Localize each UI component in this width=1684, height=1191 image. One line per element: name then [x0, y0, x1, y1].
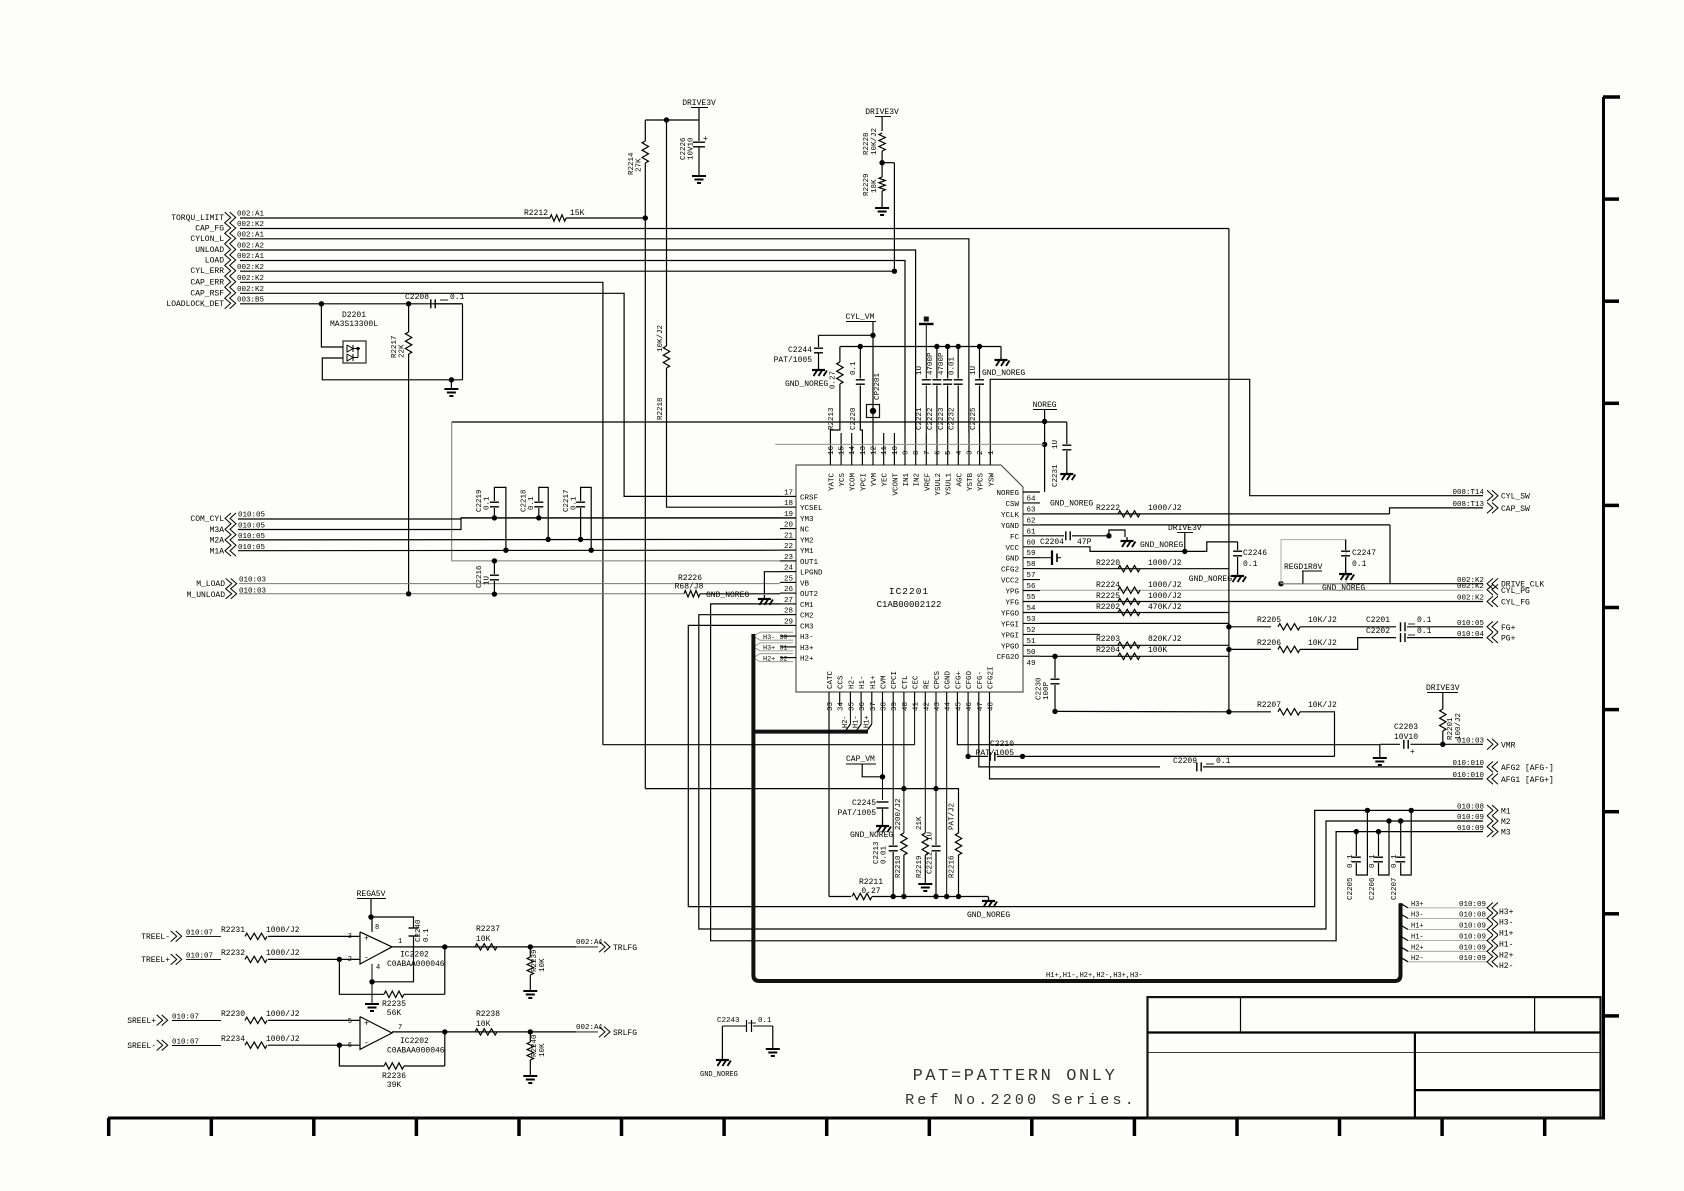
svg-text:0.1: 0.1 — [571, 496, 579, 510]
resistor R2206 10K/J2 to PG+ — [1229, 648, 1271, 650]
svg-text:R2206: R2206 — [1257, 639, 1281, 648]
svg-text:M1A: M1A — [210, 548, 225, 557]
svg-text:49: 49 — [1027, 660, 1036, 668]
svg-text:GND_NOREG: GND_NOREG — [1050, 500, 1093, 509]
svg-text:10K: 10K — [539, 1043, 547, 1057]
svg-text:C2212: C2212 — [927, 851, 935, 874]
wire C2208 right side — [436, 303, 463, 305]
output H2- — [1401, 957, 1409, 962]
wire NOREG horizontal long — [452, 421, 1067, 423]
svg-text:54: 54 — [1027, 605, 1037, 613]
capacitor C2222 4700P — [934, 344, 939, 349]
svg-text:R2231: R2231 — [221, 926, 245, 935]
svg-text:1000/J2: 1000/J2 — [1148, 504, 1182, 513]
resistor R2205 10K/J2 to FG+ — [1229, 626, 1271, 628]
svg-text:61: 61 — [1027, 528, 1037, 536]
wire pin33 CATC down to rail — [828, 706, 830, 897]
svg-text:24: 24 — [784, 565, 794, 573]
svg-text:40: 40 — [902, 701, 910, 711]
svg-text:CP2201: CP2201 — [874, 372, 882, 400]
svg-text:R2229: R2229 — [863, 173, 871, 196]
svg-text:YVM: YVM — [871, 473, 879, 487]
wire M2A row to YM2 pin21 — [238, 538, 780, 541]
wire YFG pin54 to CYL_FG — [1040, 601, 1483, 603]
svg-text:CGND: CGND — [945, 670, 953, 689]
resistor R2236 39K — [384, 1063, 404, 1069]
output H2+ — [1401, 947, 1409, 952]
svg-text:C2210: C2210 — [990, 740, 1014, 749]
op-amp IC2201 body — [796, 465, 1023, 692]
wire YFGI pin52 row — [1040, 622, 1229, 624]
frame bottom zone ticks — [107, 1118, 111, 1136]
wire GND_NOREG rail above IC — [840, 346, 1001, 348]
svg-text:VCC2: VCC2 — [1001, 578, 1019, 586]
svg-text:10K: 10K — [476, 935, 491, 944]
svg-text:21K: 21K — [916, 816, 924, 830]
svg-text:60: 60 — [1027, 539, 1037, 547]
svg-text:H3-: H3- — [1499, 918, 1513, 927]
svg-text:YM2: YM2 — [800, 537, 814, 545]
svg-text:AFG2 [AFG-]: AFG2 [AFG-] — [1501, 764, 1554, 773]
svg-text:C2204: C2204 — [1040, 538, 1064, 547]
wire FC pin59 elbow — [1040, 547, 1185, 552]
svg-text:13: 13 — [860, 445, 868, 455]
svg-text:1U: 1U — [927, 832, 935, 841]
wire DRIVE3V rail — [645, 119, 699, 121]
svg-text:H2-: H2- — [848, 675, 856, 689]
svg-text:H1-: H1- — [1499, 941, 1513, 950]
svg-text:FC: FC — [1010, 534, 1020, 542]
title block right thin line — [1415, 1052, 1601, 1054]
svg-text:27K: 27K — [636, 158, 644, 172]
svg-text:1U: 1U — [970, 366, 978, 375]
svg-text:R2220: R2220 — [1096, 559, 1120, 568]
svg-text:51: 51 — [1027, 638, 1037, 646]
svg-text:1000/J2: 1000/J2 — [1148, 592, 1182, 601]
svg-text:100K: 100K — [1148, 646, 1167, 655]
svg-text:0.1: 0.1 — [1347, 854, 1355, 868]
ground below R2229 — [875, 207, 889, 209]
title block outer — [1148, 997, 1601, 1118]
svg-text:YPGI: YPGI — [1001, 632, 1019, 640]
junction DRIVE3V/R2218 — [664, 117, 669, 122]
ground C2203 — [1379, 744, 1381, 757]
svg-text:NOREG: NOREG — [1033, 401, 1057, 410]
op-amp1 output/feedback — [392, 946, 530, 948]
svg-text:YSTB: YSTB — [967, 473, 975, 492]
svg-text:42: 42 — [923, 702, 931, 711]
svg-text:R2213: R2213 — [828, 407, 836, 430]
pin58 GND chassis symbol — [1040, 557, 1052, 559]
svg-text:6: 6 — [935, 450, 943, 455]
svg-text:0.1: 0.1 — [1417, 616, 1432, 625]
svg-text:CAP_ERR: CAP_ERR — [190, 278, 224, 287]
svg-text:C2203: C2203 — [1394, 723, 1418, 732]
svg-text:41: 41 — [913, 701, 921, 711]
svg-text:39: 39 — [891, 702, 899, 711]
diode D2201 body — [343, 341, 366, 363]
svg-text:010:09: 010:09 — [1457, 814, 1484, 822]
svg-text:Ref No.2200 Series.: Ref No.2200 Series. — [905, 1092, 1137, 1109]
svg-text:R2204: R2204 — [1096, 646, 1120, 655]
svg-text:H2+: H2+ — [1499, 951, 1514, 960]
svg-text:0.1: 0.1 — [1369, 854, 1377, 868]
svg-text:50: 50 — [1027, 649, 1037, 657]
svg-text:1000/J2: 1000/J2 — [266, 949, 300, 958]
svg-text:56K: 56K — [387, 1009, 402, 1018]
svg-text:YATC: YATC — [828, 473, 836, 492]
capacitor C2225 1U — [977, 344, 982, 349]
wire CFG+ pin45 to C2203/VMR line — [957, 706, 1379, 745]
svg-text:C2201: C2201 — [1366, 616, 1390, 625]
wire LPGND pin24 hook to ground — [764, 572, 780, 594]
svg-text:R68/J8: R68/J8 — [675, 583, 704, 592]
frame top tick — [1603, 95, 1620, 99]
svg-text:NOREG: NOREG — [996, 490, 1019, 498]
svg-text:H1+: H1+ — [1411, 923, 1424, 931]
svg-text:FG+: FG+ — [1501, 624, 1516, 633]
wire OUT1 gray row pin23 — [452, 560, 780, 562]
svg-text:CSW: CSW — [1005, 501, 1019, 509]
svg-text:+: + — [364, 1020, 369, 1029]
svg-text:SREEL+: SREEL+ — [127, 1017, 156, 1026]
svg-text:8: 8 — [913, 450, 921, 455]
svg-text:YM1: YM1 — [800, 548, 814, 556]
svg-text:0.01: 0.01 — [881, 845, 889, 864]
svg-text:0.1: 0.1 — [423, 928, 431, 942]
svg-text:010:05: 010:05 — [238, 512, 266, 520]
ground C2204 GND_NOREG — [1109, 530, 1125, 537]
wire CAP_FG row — [240, 228, 1229, 230]
svg-text:C2244: C2244 — [788, 346, 812, 355]
wire CAP_RSF row — [240, 293, 780, 496]
pattern symbol above pin7 (VREF) — [925, 324, 927, 379]
svg-text:YCLK: YCLK — [1001, 512, 1020, 520]
wire CGND pin44 — [946, 706, 948, 897]
svg-text:4: 4 — [376, 964, 380, 972]
svg-text:10K: 10K — [539, 958, 547, 972]
ground below C2244 — [818, 366, 820, 370]
svg-text:25: 25 — [784, 575, 794, 583]
svg-text:VREF: VREF — [924, 473, 932, 491]
svg-text:0.27: 0.27 — [861, 887, 880, 896]
wire SRLFG out — [530, 1031, 576, 1033]
junction LOADLOCK/D2201 — [319, 301, 324, 306]
svg-text:CAP_SW: CAP_SW — [1501, 505, 1530, 514]
svg-text:010:09: 010:09 — [1459, 923, 1486, 931]
svg-text:LOAD: LOAD — [205, 257, 224, 266]
svg-text:15K: 15K — [570, 209, 585, 218]
svg-text:C2202: C2202 — [1366, 627, 1390, 636]
wire COM_CYL/M3A merge — [238, 518, 461, 520]
frame right zone ticks — [1603, 197, 1619, 201]
svg-text:28: 28 — [784, 608, 793, 616]
ground below R2219 — [918, 883, 932, 885]
svg-text:64: 64 — [1027, 496, 1037, 504]
wire pin57 R2220 row — [1040, 568, 1229, 570]
svg-text:C2207: C2207 — [1391, 877, 1399, 900]
wire CFG- pin47 to C2209/AFG2 — [979, 706, 1160, 767]
svg-text:52: 52 — [1027, 627, 1036, 635]
svg-text:YPCI: YPCI — [860, 473, 868, 491]
svg-text:100P: 100P — [1043, 681, 1051, 700]
svg-text:CFGO: CFGO — [966, 670, 974, 689]
svg-text:H1+: H1+ — [870, 675, 878, 689]
svg-text:R2224: R2224 — [1096, 581, 1120, 590]
svg-text:IN2: IN2 — [914, 473, 922, 487]
svg-text:GND_NOREG: GND_NOREG — [706, 591, 749, 600]
svg-text:R2218: R2218 — [657, 397, 665, 420]
ground below C2245 — [882, 822, 884, 826]
svg-text:29: 29 — [784, 618, 793, 626]
regulator REGD1R8V box — [1281, 540, 1346, 584]
svg-text:C2247: C2247 — [1352, 549, 1376, 558]
svg-text:H1-: H1- — [853, 715, 861, 728]
svg-text:YSUL1: YSUL1 — [946, 473, 954, 496]
wire D2201 cathode loop — [322, 358, 462, 380]
svg-text:35: 35 — [848, 701, 856, 711]
svg-text:M_LOAD: M_LOAD — [196, 580, 225, 589]
svg-text:CYL_ERR: CYL_ERR — [190, 267, 224, 276]
svg-text:470K/J2: 470K/J2 — [1148, 603, 1182, 612]
svg-text:0.1: 0.1 — [850, 361, 858, 375]
svg-text:010:03: 010:03 — [1457, 738, 1485, 746]
svg-text:10K/J2: 10K/J2 — [1308, 616, 1337, 625]
svg-text:1000/J2: 1000/J2 — [266, 926, 300, 935]
svg-text:IC2202: IC2202 — [400, 1037, 429, 1046]
wire LOADLOCK_DET row — [240, 303, 463, 305]
drawing frame right border — [1602, 97, 1605, 1118]
svg-text:22: 22 — [784, 543, 793, 551]
svg-text:CAP_FG: CAP_FG — [195, 225, 224, 234]
svg-text:C2231: C2231 — [1052, 464, 1060, 487]
wire CEC pin41 to CAP_ERR row — [914, 706, 916, 745]
svg-text:H2-: H2- — [1411, 955, 1424, 963]
svg-text:44: 44 — [945, 701, 953, 711]
svg-text:002:K2: 002:K2 — [1457, 583, 1484, 591]
svg-text:63: 63 — [1027, 506, 1037, 514]
svg-text:0.1: 0.1 — [528, 496, 536, 510]
svg-text:C2232: C2232 — [949, 407, 957, 430]
svg-text:OUT1: OUT1 — [800, 559, 819, 567]
svg-text:R2202: R2202 — [1096, 603, 1120, 612]
output H1+ — [1401, 925, 1409, 930]
svg-text:R2207: R2207 — [1257, 701, 1281, 710]
wire REGA5V to op-amp pin8 — [371, 917, 372, 932]
svg-text:CM2: CM2 — [800, 613, 814, 621]
svg-text:C2222: C2222 — [927, 407, 935, 430]
svg-text:PAT=PATTERN ONLY: PAT=PATTERN ONLY — [913, 1067, 1118, 1086]
junction TORQU/R2214 — [643, 215, 648, 220]
svg-text:CFG2I: CFG2I — [988, 666, 996, 689]
junction CYL_ERR/R2229 line — [892, 269, 897, 274]
svg-text:R2232: R2232 — [221, 949, 245, 958]
title block left thin line — [1148, 1052, 1415, 1054]
wire CM2 pin28 to M2 output — [699, 615, 1483, 929]
wire M_UNLOAD row to OUT2 pin26 — [239, 593, 684, 595]
wire CFG2I pin48 to AFG1 — [990, 706, 1484, 779]
svg-text:COM_CYL: COM_CYL — [190, 515, 224, 524]
svg-text:45: 45 — [955, 701, 963, 711]
title block top band divider 1 — [1240, 997, 1242, 1032]
svg-text:C2221: C2221 — [916, 407, 924, 430]
svg-text:10K: 10K — [476, 1020, 491, 1029]
svg-text:H1-: H1- — [859, 675, 867, 689]
ground below D2201 — [450, 380, 452, 388]
svg-text:GND_NOREG: GND_NOREG — [967, 911, 1010, 920]
svg-text:M_UNLOAD: M_UNLOAD — [187, 591, 226, 600]
wire CM1 pin27 to M3 output — [711, 604, 1483, 941]
ground GND_NOREG C2243 — [721, 1056, 723, 1060]
svg-text:12: 12 — [871, 446, 879, 455]
svg-text:CFG+: CFG+ — [955, 670, 963, 689]
svg-text:AFG1 [AFG+]: AFG1 [AFG+] — [1501, 776, 1554, 785]
svg-text:2200/J2: 2200/J2 — [895, 798, 903, 830]
svg-text:010:05: 010:05 — [1457, 620, 1485, 628]
svg-text:10: 10 — [892, 445, 900, 455]
svg-text:27: 27 — [784, 597, 793, 605]
title block top band divider 2 — [1534, 997, 1536, 1032]
svg-text:IC2202: IC2202 — [400, 951, 429, 960]
svg-text:YSW: YSW — [988, 473, 996, 487]
wire R2216 row from R2212 line — [645, 789, 958, 833]
wire CAP_ERR row to pin41 CEC — [603, 744, 915, 746]
svg-text:0.1: 0.1 — [484, 496, 492, 510]
ground below R2240 — [523, 1075, 537, 1077]
svg-text:GND_NOREG: GND_NOREG — [1322, 584, 1365, 593]
drawing frame bottom border — [108, 1117, 1605, 1120]
svg-text:YPG: YPG — [1005, 589, 1019, 597]
svg-text:C2209: C2209 — [1173, 757, 1197, 766]
svg-text:1U: 1U — [916, 366, 924, 375]
wire YCLK pin61 to DRIVE_CLK — [1040, 524, 1390, 526]
svg-text:55: 55 — [1027, 594, 1037, 602]
svg-text:10K/J2: 10K/J2 — [871, 128, 879, 155]
svg-text:YSUL2: YSUL2 — [935, 473, 943, 496]
ground below C2226 — [692, 175, 706, 177]
svg-text:0.1: 0.1 — [1243, 560, 1258, 569]
svg-text:IC2201: IC2201 — [889, 586, 929, 597]
svg-text:OUT2: OUT2 — [800, 591, 818, 599]
svg-text:CYL_PG: CYL_PG — [1501, 587, 1530, 596]
svg-text:0.1: 0.1 — [1391, 854, 1399, 868]
svg-text:CFG-: CFG- — [977, 671, 985, 689]
svg-text:M2: M2 — [1501, 818, 1511, 827]
svg-text:-: - — [364, 954, 369, 963]
svg-text:VCONT: VCONT — [892, 473, 900, 496]
svg-text:H3- 30: H3- 30 — [763, 634, 787, 642]
svg-text:0.27: 0.27 — [830, 371, 838, 389]
svg-text:R2225: R2225 — [1096, 592, 1120, 601]
svg-text:YFG: YFG — [1005, 600, 1019, 608]
wire CFG2O pin49 R2204 row — [1040, 655, 1229, 657]
connector zigzag group1 — [225, 212, 231, 309]
wire R2218 vertical (DRIVE3V to pin18 YCSEL) — [666, 120, 668, 346]
svg-text:0.1: 0.1 — [1417, 627, 1432, 636]
svg-text:18K: 18K — [871, 179, 879, 193]
svg-text:-: - — [364, 1039, 369, 1048]
CAP_FG long vertical — [1228, 229, 1230, 712]
ground rail GND_NOREG — [988, 897, 990, 901]
svg-text:CVM: CVM — [881, 675, 889, 689]
output H3- — [1401, 914, 1409, 919]
svg-text:010:09: 010:09 — [1457, 825, 1484, 833]
svg-text:23: 23 — [784, 554, 794, 562]
svg-text:43: 43 — [934, 701, 942, 711]
ground C2246 GND_NOREG — [1237, 572, 1239, 576]
svg-text:R2210: R2210 — [895, 855, 903, 878]
svg-text:SREEL-: SREEL- — [127, 1042, 156, 1051]
svg-text:CFG2O: CFG2O — [996, 654, 1019, 662]
wire CYL_VM to pin12 — [872, 322, 874, 434]
svg-text:PAT/1005: PAT/1005 — [774, 356, 813, 365]
svg-text:C2223: C2223 — [938, 407, 946, 430]
svg-text:GND_NOREG: GND_NOREG — [785, 380, 828, 389]
svg-text:C0ABAA000046: C0ABAA000046 — [387, 1047, 445, 1056]
IC2201 top pins 16..1 — [829, 433, 831, 465]
wire YPGI pin51 row — [1040, 633, 1100, 635]
wire COM_CYL row to YM3 pin19 — [461, 517, 780, 519]
svg-text:33: 33 — [827, 701, 835, 711]
wire CYLON_L row — [240, 239, 969, 433]
resistor R2235 56K — [384, 991, 404, 997]
svg-text:59: 59 — [1027, 550, 1036, 558]
svg-text:R2201: R2201 — [1447, 717, 1455, 740]
svg-text:CCS: CCS — [838, 675, 846, 689]
svg-text:H1+: H1+ — [863, 715, 871, 728]
svg-text:C1AB00002122: C1AB00002122 — [877, 600, 942, 610]
wire M_LOAD row to VB pin25 — [239, 583, 780, 585]
IC2201 right pins 64..49 — [1023, 491, 1040, 493]
svg-text:R2234: R2234 — [221, 1035, 245, 1044]
svg-text:M3A: M3A — [210, 526, 225, 535]
ground chassis C2243 — [766, 1048, 780, 1050]
svg-text:GND_NOREG: GND_NOREG — [700, 1071, 738, 1079]
svg-text:M2A: M2A — [210, 537, 225, 546]
svg-text:VMR: VMR — [1501, 741, 1516, 750]
svg-text:1U: 1U — [1052, 440, 1060, 449]
svg-text:C2240: C2240 — [415, 919, 423, 942]
svg-text:10V10: 10V10 — [1394, 733, 1418, 742]
svg-text:H2+: H2+ — [1411, 944, 1424, 952]
svg-text:21: 21 — [784, 532, 794, 540]
svg-text:CYL_SW: CYL_SW — [1501, 493, 1530, 502]
svg-text:DRIVE3V: DRIVE3V — [682, 99, 716, 108]
svg-text:R2211: R2211 — [859, 878, 883, 887]
svg-text:5: 5 — [945, 450, 953, 455]
svg-text:46: 46 — [966, 701, 974, 711]
svg-text:C2205: C2205 — [1347, 877, 1355, 900]
svg-text:H1+,H1-,H2+,H2-,H3+,H3-: H1+,H1-,H2+,H2-,H3+,H3- — [1046, 972, 1143, 980]
svg-text:010:08: 010:08 — [1457, 804, 1484, 812]
svg-text:010:04: 010:04 — [1457, 631, 1485, 639]
svg-text:RE: RE — [923, 679, 931, 689]
svg-text:AGC: AGC — [956, 473, 964, 487]
op-amp IC2202 (top) — [360, 932, 392, 964]
wire CFGO pin46 to C2210 row — [967, 706, 969, 756]
svg-text:62: 62 — [1027, 517, 1036, 525]
svg-text:CAP_VM: CAP_VM — [846, 755, 875, 764]
svg-text:H2-: H2- — [842, 715, 850, 728]
wire op-amp1 pin4 ground — [371, 964, 373, 1003]
svg-text:LPGND: LPGND — [800, 570, 823, 578]
svg-text:53: 53 — [1027, 616, 1037, 624]
wire CAP_ERR row — [240, 282, 603, 744]
svg-text:10V10: 10V10 — [688, 137, 696, 160]
svg-text:H2+: H2+ — [800, 656, 814, 664]
svg-text:0.1: 0.1 — [450, 293, 465, 302]
svg-text:R2230: R2230 — [221, 1010, 245, 1019]
